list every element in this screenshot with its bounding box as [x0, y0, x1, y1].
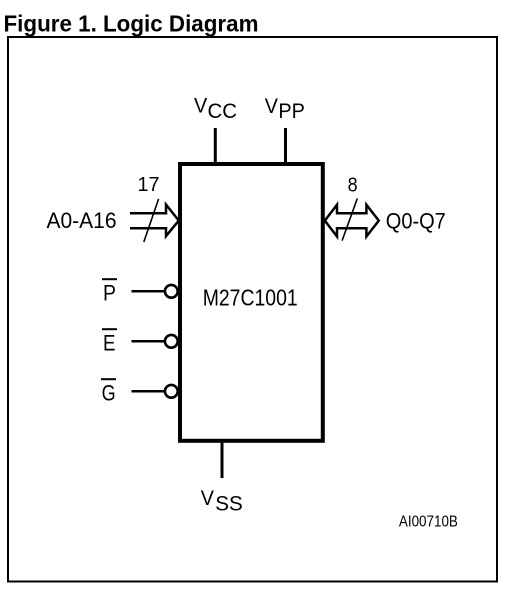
wire VSS ground: [221, 441, 224, 478]
wire VPP supply: [284, 128, 287, 164]
label E with overline: [102, 329, 117, 355]
label VPP: [265, 95, 305, 123]
wire G input: [132, 390, 166, 393]
chip body U1 M27C1001: [180, 164, 323, 441]
svg-text:V: V: [265, 95, 278, 118]
wire E input: [132, 340, 166, 343]
svg-text:17: 17: [138, 174, 160, 196]
bus width slash left: [144, 199, 159, 242]
inversion bubble P: [165, 285, 178, 298]
bus arrow A0-A16 into chip: [130, 205, 179, 237]
wire VCC supply: [214, 128, 217, 164]
svg-text:8: 8: [348, 174, 358, 196]
svg-text:V: V: [201, 487, 214, 510]
svg-text:Q0-Q7: Q0-Q7: [386, 209, 446, 234]
svg-text:M27C1001: M27C1001: [203, 285, 298, 311]
svg-text:V: V: [194, 95, 207, 118]
svg-text:E: E: [103, 331, 116, 356]
bus width slash right: [342, 199, 357, 241]
svg-text:G: G: [102, 381, 116, 406]
svg-text:A0-A16: A0-A16: [47, 208, 117, 233]
svg-text:SS: SS: [215, 493, 243, 516]
wire P input: [132, 290, 166, 293]
bus arrow Q0-Q7 bidirectional: [325, 205, 379, 237]
svg-text:CC: CC: [208, 100, 238, 123]
label P with overline: [102, 279, 117, 305]
svg-text:P: P: [103, 281, 116, 306]
svg-text:Figure 1. Logic Diagram: Figure 1. Logic Diagram: [4, 10, 259, 36]
label VCC: [194, 95, 237, 123]
svg-text:AI00710B: AI00710B: [399, 514, 458, 531]
label G with overline: [101, 379, 116, 405]
label VSS: [201, 487, 243, 516]
svg-text:PP: PP: [278, 100, 305, 123]
inversion bubble E: [165, 335, 178, 348]
inversion bubble G: [165, 385, 178, 398]
